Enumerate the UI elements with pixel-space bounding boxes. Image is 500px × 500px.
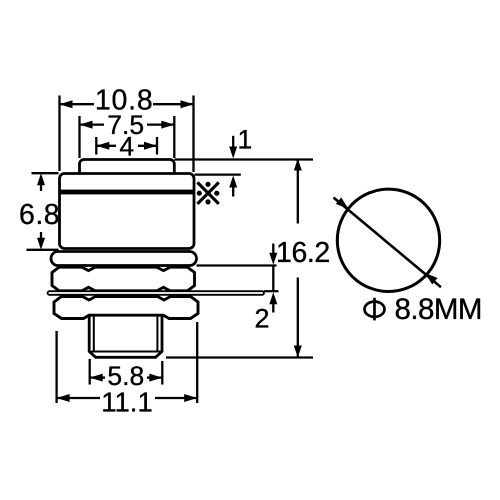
pin-top reference line	[264, 290, 279, 292]
diameter arrowhead lower-right	[425, 273, 438, 285]
dim 2 connecting line	[272, 265, 274, 291]
bushing inner bottom line	[91, 351, 161, 353]
dim 6.8 bottom reference	[27, 249, 59, 251]
dim 6.8 arrows	[40, 184, 42, 191]
main body (6.8mm tall)	[60, 174, 195, 249]
dim 16.2 bottom reference	[166, 356, 313, 358]
dim 7.5 line	[80, 123, 104, 125]
label diameter	[365, 298, 385, 321]
threaded bushing	[89, 315, 162, 357]
button cap (7.5mm)	[80, 160, 175, 174]
cap-top reference line to right	[174, 158, 313, 160]
black band on body	[61, 190, 194, 195]
collar flange	[51, 252, 197, 266]
dim 16.2 line lower segment	[297, 278, 299, 358]
svg-text:11.1: 11.1	[101, 386, 152, 417]
washer / solder-lug plate (2mm terminal)	[48, 291, 265, 295]
collar-bottom reference line to right	[197, 264, 277, 266]
bushing thread line left	[93, 315, 95, 351]
svg-text:6.8: 6.8	[19, 199, 60, 231]
dim 11.1 right extension	[196, 322, 198, 403]
dim 5.8 right extension	[161, 361, 163, 385]
dim 4 line	[97, 145, 116, 147]
dim 5.8 left extension	[89, 359, 91, 385]
svg-text:16.2: 16.2	[276, 237, 330, 269]
dim 2 upper arrow	[272, 244, 274, 256]
reference mark dots	[205, 182, 210, 187]
diameter arrowhead upper-left	[336, 197, 349, 209]
dim 11.1 left extension	[55, 331, 57, 403]
dim 10.8 right extension	[192, 96, 194, 173]
dim 4 right extension	[156, 137, 158, 155]
dim 6.8 top reference	[32, 172, 59, 174]
panel hole circle	[337, 189, 439, 291]
hex nut 2	[54, 297, 198, 319]
dim 10.8 left extension	[58, 96, 60, 172]
dim 2 lower arrow	[272, 303, 274, 313]
dim 7.5 left extension	[78, 116, 80, 158]
dim 4 left extension	[95, 137, 97, 155]
dim 5.8 line	[90, 376, 105, 378]
hex nut 1	[52, 267, 195, 291]
reference mark (kome) strokes	[197, 182, 218, 204]
bushing thread line right	[156, 315, 158, 351]
svg-text:8.8MM: 8.8MM	[395, 293, 482, 326]
dim 7.5 right extension	[173, 116, 175, 158]
dim 10.8 line	[60, 103, 94, 105]
svg-text:1: 1	[238, 124, 253, 154]
svg-text:4: 4	[119, 131, 134, 161]
circle diameter line	[334, 198, 442, 288]
dim 1 lower arrow	[232, 186, 234, 197]
dim 1 upper arrow	[232, 136, 234, 148]
svg-text:2: 2	[254, 304, 269, 334]
body-top reference line to right	[195, 174, 241, 176]
dim 16.2 line upper segment	[297, 159, 299, 224]
dim 11.1 line	[57, 397, 100, 399]
